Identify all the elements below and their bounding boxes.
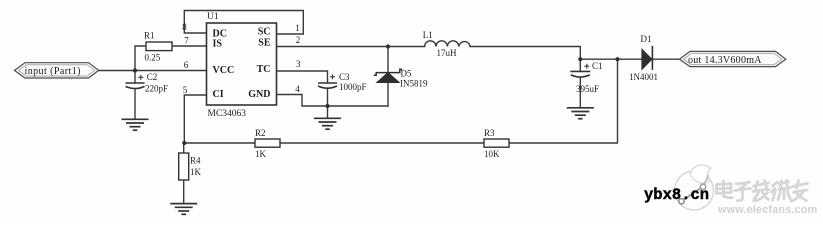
- capacitor C1 plates: [570, 71, 590, 77]
- capacitor C3 plates: [318, 83, 337, 88]
- wire input to VCC pin6: [99, 70, 207, 72]
- svg-text:2: 2: [296, 35, 301, 45]
- svg-text:D1: D1: [641, 34, 652, 44]
- svg-text:L1: L1: [423, 30, 433, 40]
- node input/C2/VCC: [133, 68, 137, 72]
- resistor R3: [484, 139, 509, 147]
- svg-text:ybx8.cn: ybx8.cn: [644, 186, 709, 204]
- wire C3 lead: [327, 89, 329, 118]
- wire C1 lead to ground: [579, 78, 581, 107]
- svg-text:CI: CI: [213, 89, 224, 100]
- svg-text:TC: TC: [257, 64, 271, 75]
- svg-text:out 14.3V600mA: out 14.3V600mA: [688, 55, 762, 66]
- capacitor C3 plus: [330, 74, 335, 79]
- node pin5/R4/R2: [182, 141, 186, 145]
- svg-text:C2: C2: [147, 72, 158, 82]
- inductor L1: [425, 41, 471, 47]
- ground under C3: [314, 118, 341, 129]
- svg-text:IN5819: IN5819: [400, 79, 428, 89]
- svg-text:10K: 10K: [484, 149, 500, 159]
- svg-text:D5: D5: [401, 69, 412, 79]
- watermark chinese glyphs: [717, 181, 808, 202]
- node D1/R3: [615, 57, 619, 61]
- svg-text:1N4001: 1N4001: [629, 72, 658, 82]
- svg-text:395uF: 395uF: [576, 84, 599, 94]
- svg-text:R3: R3: [484, 128, 495, 138]
- wire R1 to pin7: [172, 45, 207, 47]
- node C1 top: [578, 57, 582, 61]
- capacitor C1 plus: [584, 64, 589, 69]
- wire loop pin8 to pin1 over IC: [184, 11, 303, 35]
- svg-text:3: 3: [296, 59, 301, 69]
- svg-text:R1: R1: [144, 31, 155, 41]
- wire pin4 GND rail: [277, 95, 389, 107]
- svg-text:GND: GND: [248, 89, 270, 100]
- svg-text:MC34063: MC34063: [208, 109, 247, 119]
- wire R2 to R3: [280, 142, 484, 144]
- wire D1 to out port: [652, 58, 679, 60]
- svg-text:R2: R2: [255, 128, 266, 138]
- svg-text:1K: 1K: [255, 149, 267, 159]
- capacitor C2 plates: [126, 83, 145, 89]
- wire junction up to R1: [135, 46, 146, 71]
- out net port: [680, 51, 786, 66]
- wire C1 node to D1: [580, 58, 642, 60]
- diode D5 schottky: [374, 69, 402, 82]
- svg-text:6: 6: [184, 60, 189, 70]
- wire node to R2: [184, 142, 255, 144]
- node GND rail / C3: [325, 104, 329, 108]
- ground under C1: [567, 108, 594, 119]
- resistor R4: [179, 153, 189, 180]
- svg-text:220pF: 220pF: [145, 84, 168, 94]
- ground under R4: [170, 204, 197, 215]
- svg-text:U1: U1: [207, 12, 219, 22]
- IC U1 MC34063 body: [207, 23, 277, 105]
- svg-text:8: 8: [182, 22, 187, 32]
- wire R3 up to output node: [509, 59, 618, 143]
- svg-text:1000pF: 1000pF: [339, 82, 367, 92]
- resistor R2: [255, 139, 280, 147]
- node SE/L1/D5: [386, 44, 390, 48]
- svg-text:R4: R4: [190, 155, 201, 165]
- svg-text:0.25: 0.25: [145, 53, 161, 63]
- input net port: [15, 63, 99, 78]
- watermark logo circle: [675, 165, 714, 210]
- svg-text:www.elecfans.com: www.elecfans.com: [717, 204, 817, 216]
- wire D5 branch: [387, 47, 389, 73]
- svg-text:VCC: VCC: [213, 65, 235, 76]
- svg-text:7: 7: [184, 36, 189, 46]
- wire pin3 to C3: [277, 71, 328, 83]
- wire C2 leads: [134, 71, 136, 84]
- svg-text:17uH: 17uH: [437, 48, 458, 58]
- svg-text:C3: C3: [339, 72, 350, 82]
- capacitor C2 plus: [138, 75, 143, 80]
- svg-text:1K: 1K: [190, 167, 202, 177]
- svg-text:C1: C1: [592, 61, 603, 71]
- resistor R1: [146, 42, 172, 51]
- wire R4 leads: [183, 143, 185, 153]
- ground under C2: [122, 119, 149, 130]
- svg-text:4: 4: [295, 84, 300, 94]
- svg-text:5: 5: [183, 85, 188, 95]
- wire pin5 down to divider node: [184, 95, 206, 143]
- wire L1 to C1 corner: [470, 47, 580, 72]
- wire pin2 SE to L1: [277, 46, 425, 48]
- svg-text:IS: IS: [213, 38, 223, 49]
- svg-text:input (Part1): input (Part1): [25, 66, 81, 77]
- svg-text:SC: SC: [258, 26, 271, 37]
- svg-text:1: 1: [295, 23, 300, 33]
- diode D1: [642, 46, 653, 70]
- svg-text:SE: SE: [258, 37, 271, 48]
